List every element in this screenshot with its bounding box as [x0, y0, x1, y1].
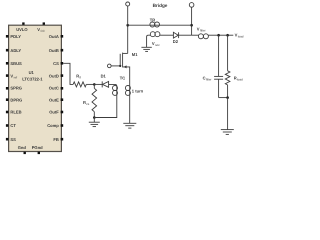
svg-text:D1: D1: [101, 74, 107, 79]
terminal (bridge left): [126, 2, 130, 6]
node D (primary right): [190, 24, 193, 27]
svg-text:PDLY: PDLY: [10, 34, 21, 39]
svg-text:PGnd: PGnd: [32, 145, 43, 150]
wire right terminal down to output rail: [191, 7, 193, 35]
svg-text:OutF: OutF: [49, 110, 59, 115]
svg-text:load: load: [237, 78, 243, 82]
svg-text:SS: SS: [10, 137, 16, 142]
svg-text:U1: U1: [29, 70, 35, 75]
pin Comp: [47, 123, 63, 128]
ground (below Rcs): [89, 118, 100, 127]
svg-text:RLEB: RLEB: [10, 110, 21, 115]
resistor Rcs: [83, 84, 97, 117]
resistor Rfl: [73, 73, 86, 87]
pin OutD: [49, 73, 63, 78]
svg-text:SPRG: SPRG: [10, 85, 22, 90]
pin OutA: [49, 34, 63, 39]
pin PGnd: [32, 145, 43, 154]
svg-text:filter: filter: [206, 78, 212, 82]
svg-text:OutE: OutE: [49, 97, 59, 102]
pin DPRG: [6, 97, 22, 102]
svg-text:ref: ref: [14, 75, 18, 79]
svg-text:load: load: [238, 35, 244, 39]
svg-text:cs: cs: [86, 102, 90, 106]
capacitor Cfilter: [203, 35, 224, 97]
svg-text:1 turn: 1 turn: [132, 88, 144, 93]
ground (below TC secondary): [123, 123, 136, 128]
svg-text:Gnd: Gnd: [18, 145, 27, 150]
svg-text:LTC3722-1: LTC3722-1: [22, 77, 43, 82]
pin SBUS: [6, 61, 22, 66]
pin SPRG: [6, 85, 22, 90]
svg-text:DPRG: DPRG: [10, 97, 22, 102]
svg-text:M1: M1: [132, 52, 138, 57]
pin PDLY: [6, 34, 21, 39]
wire D2 node to inductor: [192, 34, 199, 36]
pin ADLY: [6, 48, 22, 53]
IC reference U1 LTC3722-1: [22, 70, 43, 82]
pin CS: [53, 61, 63, 66]
pin FB: [53, 137, 63, 142]
svg-text:Bridge: Bridge: [153, 3, 168, 8]
label Bridge: [153, 3, 168, 8]
pin OutB: [49, 48, 63, 53]
svg-text:SBUS: SBUS: [10, 61, 22, 66]
pin UVLO: [16, 22, 28, 31]
wire CS pin to Rfl: [63, 63, 73, 84]
diode D2: [173, 32, 192, 44]
transistor M1 (NMOS): [108, 52, 139, 84]
pin CT: [6, 123, 16, 128]
svg-text:FB: FB: [53, 137, 59, 142]
svg-text:Comp: Comp: [47, 123, 59, 128]
node A (CS sense node): [93, 83, 96, 86]
svg-text:OutD: OutD: [49, 73, 59, 78]
resistor Rload: [225, 35, 243, 97]
svg-text:UVLO: UVLO: [16, 27, 28, 32]
svg-text:CT: CT: [10, 123, 16, 128]
wire M1 drain to bridge node: [127, 25, 129, 53]
wire node C to left bridge terminal: [127, 6, 129, 25]
svg-text:sec: sec: [155, 43, 160, 47]
pin OutC: [49, 85, 63, 90]
svg-text:CS: CS: [53, 61, 59, 66]
wire Rfl to node A: [86, 83, 94, 85]
terminal (bridge right): [189, 3, 194, 8]
pin OutF: [49, 110, 63, 115]
wire node G to ground: [227, 98, 229, 130]
ground (output return): [221, 130, 234, 135]
transformer TC (current transformer): [94, 75, 143, 123]
pin VCC: [37, 22, 45, 33]
svg-text:fl: fl: [80, 75, 82, 79]
svg-text:TC: TC: [120, 75, 126, 80]
wire bottom rail: [219, 97, 228, 99]
ground (TR secondary return): [141, 47, 151, 51]
op-amp U1 (controller IC LTC3722-1 body): [9, 25, 62, 151]
diode D1: [94, 74, 117, 88]
svg-text:OutB: OutB: [49, 48, 59, 53]
pin VREF: [6, 73, 17, 79]
transformer TR secondary: [147, 32, 174, 48]
pin Gnd: [18, 145, 27, 154]
pin RLEB: [6, 110, 22, 115]
pin SS: [6, 137, 16, 142]
node F (load junction): [226, 34, 229, 37]
node G (bottom rail junction): [226, 96, 229, 99]
node E (cap junction): [217, 34, 220, 37]
label Vsec: [152, 41, 160, 47]
svg-text:OutA: OutA: [49, 34, 59, 39]
label Vload: [235, 32, 244, 38]
svg-text:D2: D2: [173, 39, 179, 44]
node B (Rcs bottom junction): [93, 116, 96, 119]
svg-text:ADLY: ADLY: [10, 48, 21, 53]
transformer TR primary: [128, 17, 192, 27]
inductor Lfilter: [197, 26, 219, 39]
wire output rail: [219, 34, 234, 36]
pin OutE: [49, 97, 63, 102]
svg-text:OutC: OutC: [49, 85, 59, 90]
svg-text:filter: filter: [200, 28, 206, 32]
node C (primary left / drain): [126, 24, 129, 27]
